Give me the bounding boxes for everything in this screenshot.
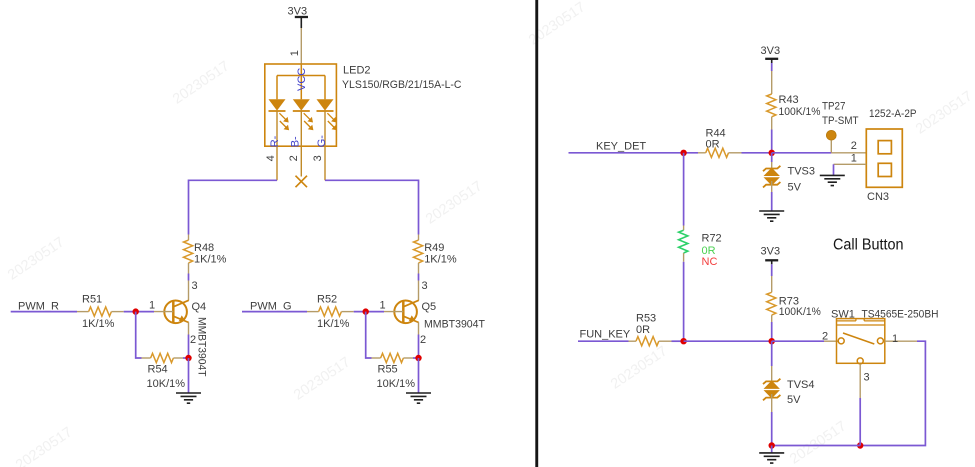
label R51 1K/1% bbox=[82, 293, 115, 330]
svg-text:2: 2 bbox=[822, 331, 828, 343]
wire: return to ground node bbox=[772, 445, 861, 447]
resistor R43 bbox=[767, 71, 776, 130]
wire: 3V3 to R73 bbox=[771, 264, 773, 276]
svg-text:G-: G- bbox=[316, 135, 328, 148]
power symbol 3V3 (R43) bbox=[761, 45, 781, 63]
svg-text:R53: R53 bbox=[636, 312, 656, 324]
svg-text:Call Button: Call Button bbox=[833, 237, 904, 254]
svg-text:3V3: 3V3 bbox=[761, 246, 781, 258]
svg-text:10K/1%: 10K/1% bbox=[147, 378, 186, 390]
label R72 0R NC bbox=[702, 233, 722, 268]
svg-text:2: 2 bbox=[190, 334, 196, 346]
switch SW1 bbox=[837, 319, 918, 398]
svg-text:MMBT3904T: MMBT3904T bbox=[424, 318, 485, 330]
resistor R44 bbox=[698, 148, 742, 157]
transistor Q4 (NPN) bbox=[154, 281, 189, 335]
junction (ground node) bbox=[769, 442, 775, 448]
wire: R43 to KEY node bbox=[771, 130, 773, 153]
svg-text:1K/1%: 1K/1% bbox=[317, 318, 350, 330]
svg-text:R-: R- bbox=[269, 135, 281, 147]
wire: R49 to Q5 collector bbox=[418, 274, 420, 281]
svg-text:100K/1%: 100K/1% bbox=[779, 306, 821, 318]
transistor Q5 (NPN) bbox=[384, 281, 419, 335]
svg-text:TP27: TP27 bbox=[822, 100, 846, 112]
svg-text:FUN_KEY: FUN_KEY bbox=[580, 328, 631, 340]
svg-text:5V: 5V bbox=[788, 182, 802, 194]
wire: KEY junction down to R72 bbox=[683, 153, 685, 226]
TVS diode TVS4 bbox=[763, 366, 780, 412]
junction (KEY_DET node) bbox=[769, 150, 775, 156]
wire: R55 to Q5 emitter bbox=[413, 335, 419, 359]
label TVS4 5V bbox=[787, 379, 815, 406]
svg-text:0R: 0R bbox=[706, 139, 720, 151]
labels R- B- G- (LED2 pin names, rotated) bbox=[269, 135, 328, 148]
svg-text:Q4: Q4 bbox=[192, 301, 207, 313]
wire: TVS3 to ground bbox=[771, 192, 773, 211]
junction (Q4 base / R54) bbox=[133, 308, 139, 314]
wire: junction down to R54 bbox=[136, 312, 142, 358]
label SW1 TS4565E-250BH bbox=[831, 308, 939, 320]
svg-text:1: 1 bbox=[289, 50, 301, 56]
label R53 0R bbox=[636, 312, 656, 335]
wire: CN3 pin 1 to ground bbox=[833, 164, 835, 175]
wire: emitter junction to ground bbox=[418, 358, 420, 393]
junction (FUN_KEY / R72) bbox=[680, 338, 686, 344]
svg-text:1: 1 bbox=[892, 333, 898, 345]
svg-text:1K/1%: 1K/1% bbox=[82, 318, 115, 330]
wire: FUN node to SW1 pin 2 bbox=[772, 340, 839, 342]
svg-text:SW1: SW1 bbox=[831, 308, 855, 320]
svg-text:R48: R48 bbox=[194, 242, 214, 254]
led LED2 (tri-colour, common anode) bbox=[265, 64, 337, 180]
svg-text:TVS3: TVS3 bbox=[788, 166, 816, 178]
svg-text:1: 1 bbox=[380, 299, 386, 311]
resistor R49 bbox=[414, 235, 423, 274]
resistor R51 bbox=[77, 307, 124, 316]
svg-text:2: 2 bbox=[288, 155, 300, 161]
wire: R52 to Q5 base bbox=[354, 311, 384, 313]
svg-text:2: 2 bbox=[851, 140, 857, 152]
wire: LED2 pin 3 to R49 bbox=[325, 180, 419, 234]
svg-text:YLS150/RGB/21/15A-L-C: YLS150/RGB/21/15A-L-C bbox=[342, 79, 462, 91]
no-connect X on LED2 pin 2 bbox=[296, 176, 308, 188]
wire: PWM_R input bbox=[11, 311, 77, 313]
svg-text:2: 2 bbox=[420, 334, 426, 346]
label R44 0R bbox=[706, 128, 726, 151]
svg-text:0R: 0R bbox=[636, 324, 650, 336]
label R52 1K/1% bbox=[317, 293, 350, 330]
svg-text:1K/1%: 1K/1% bbox=[194, 253, 227, 265]
ground (Q4 emitter) bbox=[176, 393, 201, 403]
wire: R73 to FUN node bbox=[771, 322, 773, 341]
wire: R72 to FUN_KEY junction bbox=[683, 262, 685, 341]
junction (FUN_KEY / R73 / TVS4) bbox=[769, 338, 775, 344]
svg-text:3: 3 bbox=[422, 280, 428, 292]
label R49 1K/1% bbox=[424, 242, 457, 265]
svg-text:3: 3 bbox=[864, 372, 870, 384]
svg-text:KEY_DET: KEY_DET bbox=[596, 140, 646, 152]
label R54 10K/1% bbox=[147, 364, 186, 390]
svg-text:3V3: 3V3 bbox=[288, 6, 308, 18]
wire: FUN_KEY input bbox=[578, 340, 629, 342]
svg-text:NC: NC bbox=[702, 256, 718, 268]
svg-text:R54: R54 bbox=[148, 364, 168, 376]
TVS diode TVS3 bbox=[763, 162, 780, 192]
wire: ground node to ground bbox=[771, 446, 773, 453]
label R55 10K/1% bbox=[377, 364, 416, 390]
junction (Q5 emitter / R55) bbox=[415, 355, 421, 361]
label R73 100K/1% bbox=[779, 296, 821, 319]
svg-text:R55: R55 bbox=[378, 364, 398, 376]
wire: PWM_G input bbox=[242, 311, 307, 313]
svg-text:4: 4 bbox=[265, 155, 277, 161]
svg-text:5V: 5V bbox=[787, 394, 801, 406]
svg-text:R43: R43 bbox=[779, 94, 799, 106]
junction (Q5 base / R55) bbox=[363, 308, 369, 314]
wire: KEY_DET input bbox=[569, 152, 699, 154]
resistor R52 bbox=[307, 307, 354, 316]
resistor R48 bbox=[184, 235, 193, 274]
junction (SW1 pin 3 / return) bbox=[857, 442, 863, 448]
svg-text:10K/1%: 10K/1% bbox=[377, 378, 416, 390]
svg-text:B-: B- bbox=[289, 136, 301, 147]
wire: R44 to KEY node bbox=[742, 152, 772, 154]
junction (KEY_DET / R72) bbox=[680, 150, 686, 156]
section divider bbox=[535, 0, 538, 467]
resistor R73 bbox=[767, 276, 776, 322]
wire: junction down to R55 bbox=[366, 312, 372, 358]
ground (CN3 pin 1) bbox=[820, 175, 845, 185]
power symbol 3V3 (R73) bbox=[761, 246, 781, 265]
label R48 1K/1% bbox=[194, 242, 227, 265]
wire: SW1 pin 1 return loop bbox=[860, 341, 925, 445]
wire: junction to FUN node bbox=[684, 340, 772, 342]
svg-text:R51: R51 bbox=[82, 293, 102, 305]
power symbol 3V3 (LED supply) bbox=[288, 6, 309, 28]
wire: 3V3 to LED2 pin 1 lead bbox=[300, 28, 302, 65]
svg-text:CN3: CN3 bbox=[867, 191, 889, 203]
connector CN3 bbox=[834, 129, 903, 187]
svg-text:3: 3 bbox=[192, 280, 198, 292]
svg-text:Q5: Q5 bbox=[422, 301, 437, 313]
svg-text:R49: R49 bbox=[424, 242, 444, 254]
svg-text:R52: R52 bbox=[317, 293, 337, 305]
resistor R72 (green, NC) bbox=[679, 226, 688, 262]
wire: R54 to Q4 emitter bbox=[183, 335, 189, 359]
wire: node to TVS3 bbox=[771, 153, 773, 162]
wire: R48 to Q4 collector bbox=[188, 274, 190, 281]
resistor R54 bbox=[142, 353, 184, 362]
test point TP27 bbox=[826, 130, 836, 152]
svg-text:VCC: VCC bbox=[296, 68, 308, 91]
wire: emitter junction to ground bbox=[188, 358, 190, 393]
wire: 3V3 to R43 bbox=[771, 63, 773, 71]
svg-text:TVS4: TVS4 bbox=[787, 379, 815, 391]
junction (Q4 emitter / R54) bbox=[185, 355, 191, 361]
svg-text:TP-SMT: TP-SMT bbox=[822, 115, 859, 127]
svg-text:1K/1%: 1K/1% bbox=[424, 253, 457, 265]
wire: LED2 pin 4 to R48 bbox=[189, 180, 278, 234]
svg-text:R72: R72 bbox=[702, 233, 722, 245]
svg-text:1: 1 bbox=[149, 299, 155, 311]
svg-text:1252-A-2P: 1252-A-2P bbox=[869, 108, 917, 120]
svg-text:TS4565E-250BH: TS4565E-250BH bbox=[862, 308, 939, 320]
ground (call button circuit) bbox=[759, 453, 784, 463]
label TP27 TP-SMT bbox=[822, 100, 859, 127]
wire: KEY node to CN3 pin 2 bbox=[772, 152, 867, 154]
ground (Q5 emitter) bbox=[406, 393, 431, 403]
wire: SW1 pin 3 down bbox=[859, 398, 861, 446]
label R43 100K/1% bbox=[779, 94, 821, 118]
svg-text:LED2: LED2 bbox=[343, 64, 371, 76]
wire: FUN node down to TVS4 bbox=[771, 341, 773, 366]
wire: TVS4 to ground node bbox=[771, 412, 773, 446]
resistor R55 bbox=[372, 353, 414, 362]
wire: R51 to Q4 base bbox=[124, 311, 154, 313]
svg-text:3V3: 3V3 bbox=[761, 45, 781, 57]
svg-text:MMBT3904T: MMBT3904T bbox=[195, 317, 207, 377]
resistor R53 bbox=[629, 337, 672, 346]
wire: R53 to junction bbox=[672, 340, 684, 342]
ground (TVS3) bbox=[759, 211, 784, 221]
label TVS3 5V bbox=[788, 166, 816, 194]
svg-text:1: 1 bbox=[851, 153, 857, 165]
svg-text:100K/1%: 100K/1% bbox=[779, 106, 821, 118]
svg-text:3: 3 bbox=[312, 155, 324, 161]
